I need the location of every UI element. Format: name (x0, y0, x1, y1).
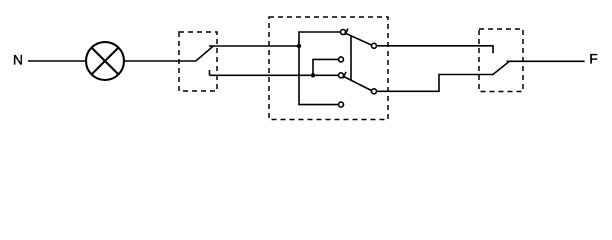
switch S3 lever (492, 61, 509, 75)
S2 lever link (350, 36, 352, 81)
S2 lever 2 (343, 72, 372, 91)
wire junction B up to terminal 2 (313, 59, 338, 75)
svg-text:F: F (589, 51, 598, 67)
switch S1 lower contact stub (209, 70, 211, 75)
lamp E1 (86, 42, 124, 80)
wire S1 lower throw to intermediate switch (210, 74, 339, 76)
wire lamp to switch S1 (124, 60, 196, 62)
wire junction A down to terminal 4 (299, 46, 338, 105)
wire junction A up to terminal 1 (299, 32, 340, 46)
svg-text:N: N (13, 52, 23, 68)
switch S1 two-way box (179, 32, 217, 91)
S2 lever 1 (345, 29, 372, 45)
terminal 2 contact (339, 57, 344, 62)
wire S2 output 2 to S3 common (377, 75, 493, 92)
terminal 6 contact (372, 89, 377, 94)
switch S1 lever (196, 46, 213, 61)
terminal 4 contact (339, 102, 344, 107)
wire S1 top throw to junction A (209, 45, 299, 47)
terminal 3 contact (339, 73, 344, 78)
wire S3 to F (507, 60, 585, 62)
wire N to lamp (28, 60, 86, 62)
terminal 1 contact (341, 30, 346, 35)
node A junction dot (297, 44, 301, 48)
wire S2 output 1 to S3 upper contact stub (377, 46, 493, 53)
switch S2 intermediate box (269, 17, 388, 120)
terminal 5 contact (372, 43, 377, 48)
switch S3 two-way box (479, 29, 523, 92)
node B junction dot (311, 73, 315, 77)
